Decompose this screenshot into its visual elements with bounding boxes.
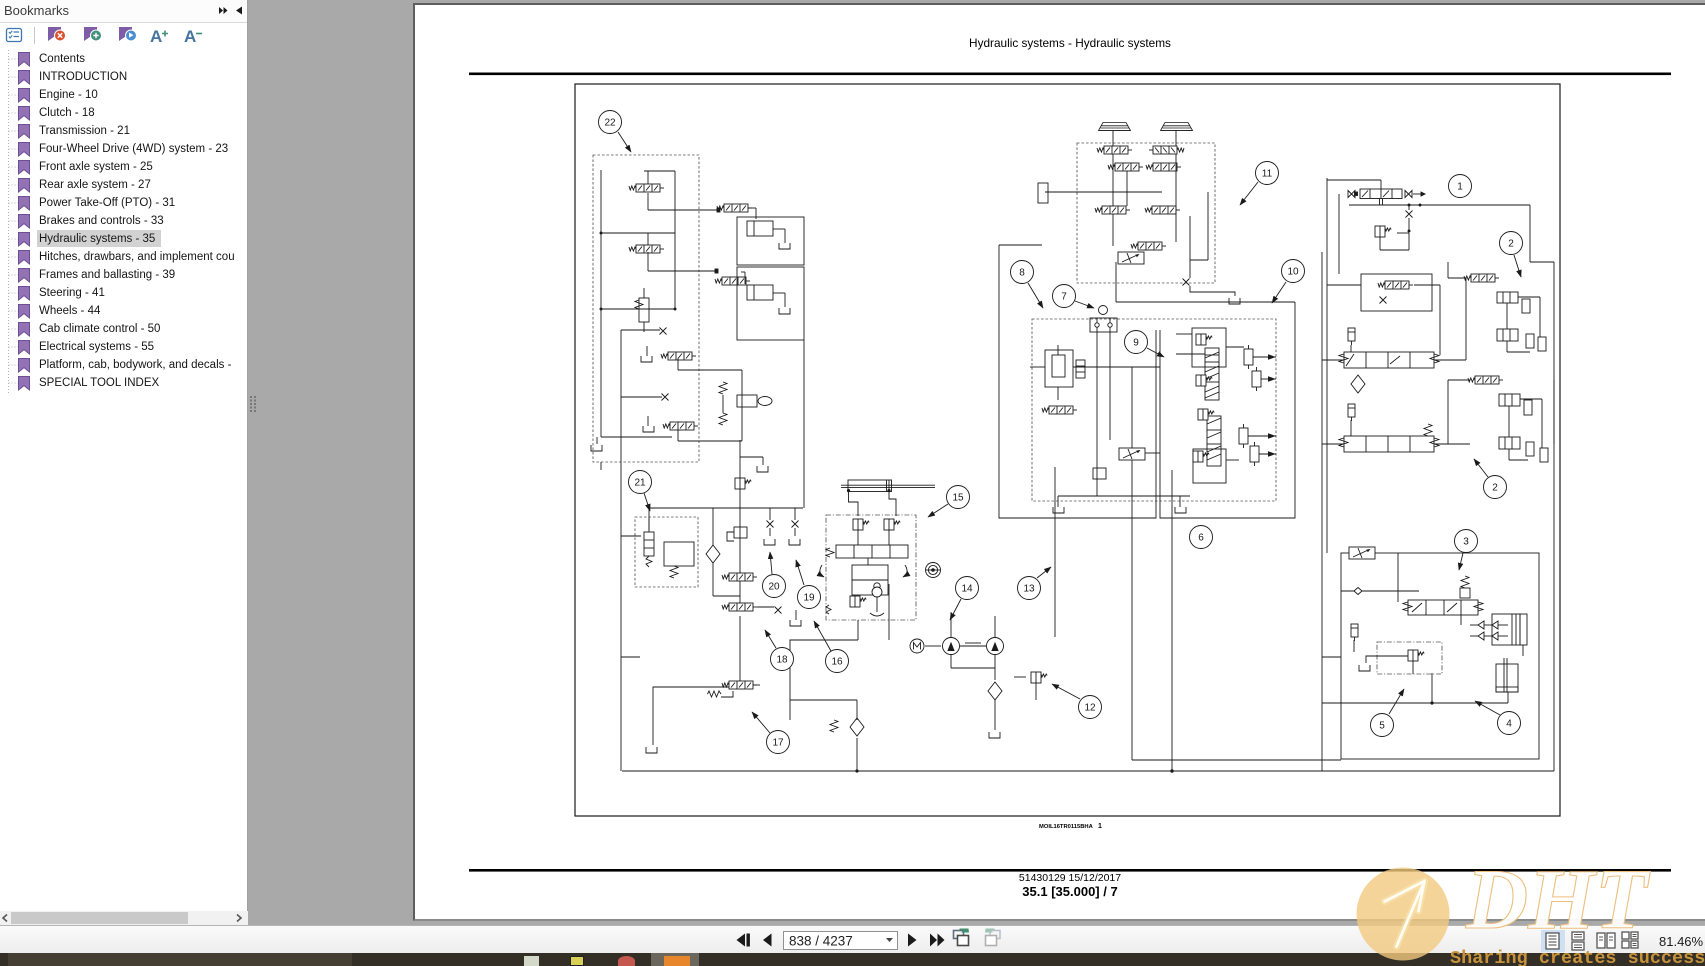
svg-text:1: 1 xyxy=(1457,182,1463,193)
svg-text:22: 22 xyxy=(604,118,616,129)
svg-text:MOIL16TR0115BHA: MOIL16TR0115BHA xyxy=(1039,824,1094,830)
svg-text:11: 11 xyxy=(1262,169,1273,180)
svg-text:17: 17 xyxy=(772,738,784,749)
svg-text:12: 12 xyxy=(1084,703,1096,714)
svg-text:838 / 4237: 838 / 4237 xyxy=(789,934,853,949)
svg-text:A: A xyxy=(184,27,196,46)
svg-text:A: A xyxy=(150,27,162,46)
svg-text:81.46%: 81.46% xyxy=(1659,934,1704,949)
svg-text:7: 7 xyxy=(1061,292,1067,303)
svg-text:10: 10 xyxy=(1287,267,1299,278)
svg-text:18: 18 xyxy=(776,655,788,666)
svg-text:4: 4 xyxy=(1506,719,1512,730)
svg-text:20: 20 xyxy=(768,582,780,593)
svg-text:9: 9 xyxy=(1133,338,1139,349)
svg-text:13: 13 xyxy=(1023,584,1035,595)
svg-text:5: 5 xyxy=(1379,721,1385,732)
svg-text:35.1 [35.000] / 7: 35.1 [35.000] / 7 xyxy=(1022,884,1117,899)
svg-text:2: 2 xyxy=(1508,239,1514,250)
svg-text:16: 16 xyxy=(831,657,843,668)
svg-text:14: 14 xyxy=(961,584,973,595)
svg-text:3: 3 xyxy=(1463,537,1469,548)
svg-text:8: 8 xyxy=(1019,268,1025,279)
svg-text:51430129 15/12/2017: 51430129 15/12/2017 xyxy=(1019,872,1121,884)
svg-text:21: 21 xyxy=(634,478,646,489)
svg-text:Hydraulic systems - Hydraulic: Hydraulic systems - Hydraulic systems xyxy=(969,36,1171,50)
svg-text:19: 19 xyxy=(803,593,815,604)
svg-text:6: 6 xyxy=(1198,533,1204,544)
svg-text:15: 15 xyxy=(952,493,964,504)
svg-text:1: 1 xyxy=(1098,823,1102,830)
svg-text:2: 2 xyxy=(1492,483,1498,494)
